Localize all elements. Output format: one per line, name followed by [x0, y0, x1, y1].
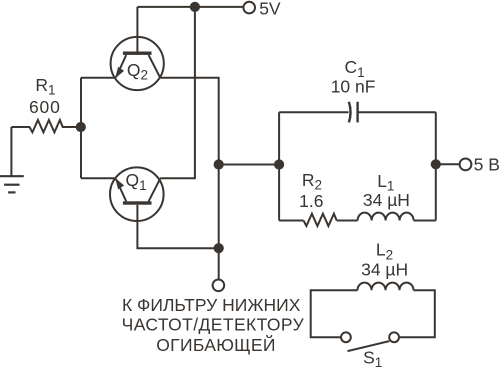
wire 5V rail down to Q1 collector: [160, 7, 195, 178]
node output junction mid: [214, 159, 224, 169]
wire tank bottom left: [279, 220, 303, 222]
wire tank top right: [359, 111, 436, 113]
svg-text:1.6: 1.6: [299, 191, 323, 211]
wire Q2 collector right: [160, 78, 218, 279]
switch S1: [341, 332, 399, 351]
svg-text:5 В: 5 В: [474, 155, 500, 175]
wire L1 to tank right: [414, 220, 436, 222]
wire top rail to 5V: [137, 6, 242, 8]
node output junction low: [214, 243, 224, 253]
inductor L2: [358, 283, 414, 291]
svg-text:34 µH: 34 µH: [361, 260, 408, 280]
ground: [0, 176, 24, 192]
wire tank top left: [279, 111, 349, 113]
svg-text:R2: R2: [302, 170, 322, 193]
wire Q2 base lead: [136, 7, 138, 53]
wire Q1 base lead down: [137, 205, 218, 249]
terminal 5V: [243, 2, 255, 14]
wire R2 to L1: [337, 220, 358, 222]
wire Q1 emitter to left bus: [81, 177, 116, 179]
wire L2 loop right: [400, 290, 435, 337]
svg-text:ОГИБАЮЩЕЙ: ОГИБАЮЩЕЙ: [156, 334, 275, 355]
svg-text:34 µH: 34 µH: [363, 190, 410, 210]
resistor R1: [11, 120, 81, 132]
label to filter text: [122, 295, 305, 355]
wire tank right vertical: [435, 112, 437, 220]
inductor L1: [358, 213, 414, 221]
wire left bus vertical: [80, 78, 82, 179]
svg-text:Q1: Q1: [126, 170, 147, 193]
node tank left: [274, 159, 284, 169]
svg-text:К ФИЛЬТРУ НИЖНИХ: К ФИЛЬТРУ НИЖНИХ: [122, 295, 301, 315]
wire to 5V output terminal: [436, 163, 459, 165]
node top junction: [190, 2, 200, 12]
svg-text:S1: S1: [363, 347, 382, 369]
svg-text:5V: 5V: [259, 0, 281, 18]
wire to tank left node: [219, 164, 279, 166]
node R1 junction: [76, 122, 86, 132]
transistor Q1: [110, 167, 164, 221]
terminal to filter: [213, 280, 225, 292]
transistor Q2: [111, 37, 164, 90]
terminal 5 V output: [460, 159, 472, 171]
wire ground lead: [10, 127, 12, 176]
wire L2 loop left: [311, 290, 358, 337]
capacitor C1: [349, 102, 358, 123]
svg-text:ЧАСТОТ/ДЕТЕКТОРУ: ЧАСТОТ/ДЕТЕКТОРУ: [122, 314, 305, 334]
resistor R2: [304, 214, 337, 226]
wire Q2 emitter to left bus: [81, 77, 116, 79]
svg-text:600: 600: [29, 97, 61, 117]
svg-text:10 nF: 10 nF: [331, 76, 376, 96]
node tank right: [431, 159, 441, 169]
svg-text:R1: R1: [35, 75, 55, 98]
svg-text:Q2: Q2: [127, 60, 148, 83]
wire tank left vertical: [278, 112, 280, 220]
